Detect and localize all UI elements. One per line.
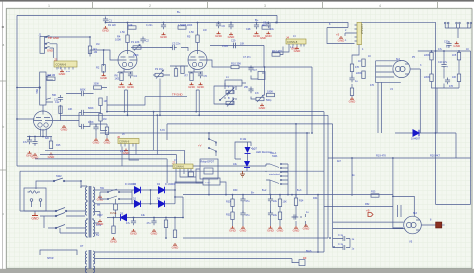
svg-text:+5: +5	[336, 33, 340, 37]
ground under J2	[59, 70, 67, 76]
pentode V4	[393, 60, 420, 77]
plate resistor R5 100K	[196, 35, 199, 43]
cap C13 (h)	[79, 91, 86, 96]
cathode cap C4	[128, 72, 133, 79]
cap C15 (h)	[79, 124, 86, 129]
inline capacitor C29	[234, 43, 236, 49]
svg-text:CONN-6: CONN-6	[119, 139, 130, 143]
ruler ticks left	[0, 81, 6, 170]
decoupling cap C6 on rail	[216, 22, 221, 29]
svg-text:R1 12K: R1 12K	[108, 24, 116, 27]
resistor R35 on feed	[371, 194, 379, 197]
cap C11	[445, 78, 450, 85]
small box U2	[258, 72, 265, 80]
resistor R16 220K	[430, 74, 433, 82]
svg-text:+V: +V	[198, 144, 202, 148]
port +B	[366, 209, 373, 217]
svg-text:10K: 10K	[452, 76, 457, 79]
cathode resistor R7	[190, 73, 193, 81]
svg-text:~ + -: ~ + -	[205, 182, 210, 185]
cathode resistor R6	[120, 73, 123, 81]
svg-text:22u: 22u	[270, 28, 275, 31]
svg-text:1M: 1M	[103, 118, 106, 121]
svg-text:C3 22n: C3 22n	[172, 42, 181, 46]
svg-text:2: 2	[149, 4, 151, 8]
svg-text:R3 1M: R3 1M	[48, 73, 56, 77]
svg-text:47u: 47u	[147, 222, 152, 225]
connector J7 (yellow)	[172, 160, 193, 171]
window bottom strip	[0, 269, 474, 273]
ground at T1 HT CT	[97, 220, 105, 226]
wire bridge output up to relay rectifier	[175, 182, 203, 218]
bridge diode D3	[132, 190, 175, 207]
svg-text:C28: C28	[246, 28, 251, 31]
wire joining jumpers	[445, 28, 471, 38]
svg-text:6.3V: 6.3V	[160, 129, 165, 132]
svg-text:C30: C30	[444, 41, 449, 44]
svg-text:1.5K: 1.5K	[189, 31, 194, 34]
V3 plate coupling wire	[210, 45, 264, 67]
svg-text:R19 47K: R19 47K	[376, 154, 386, 158]
svg-text:P1 22K: P1 22K	[131, 40, 140, 44]
svg-text:C7: C7	[254, 68, 258, 72]
svg-text:R10 39K: R10 39K	[231, 62, 241, 66]
wire J6 drop	[122, 147, 139, 167]
svg-text:R35: R35	[371, 191, 376, 194]
resistor R17	[457, 52, 460, 60]
svg-text:R7: R7	[185, 74, 189, 78]
wire J7 links	[176, 171, 203, 183]
svg-text:V5: V5	[409, 240, 413, 244]
rail dropper resistors row	[128, 26, 136, 29]
bridge diode D1	[132, 183, 175, 193]
wire bottom long run	[183, 237, 328, 239]
wire V3 cathode network	[188, 68, 203, 73]
resistor R37	[350, 88, 353, 96]
wire into V5 box	[324, 196, 414, 228]
svg-text:CONN-6: CONN-6	[174, 165, 185, 169]
wire mid right bus	[328, 158, 471, 196]
svg-text:220K: 220K	[424, 76, 430, 79]
plate resistor R4 100K	[126, 35, 129, 43]
grid resistor R14	[362, 71, 365, 79]
input jack J1	[40, 36, 52, 54]
ground dark under LED	[240, 171, 245, 177]
ground of inlet	[31, 213, 39, 221]
trimmer P1	[133, 46, 141, 49]
connector J5 (yellow, vertical)	[357, 22, 364, 44]
ground under jumpers	[453, 42, 461, 48]
wire main B+ bus	[183, 194, 393, 196]
T1 secondary taps	[95, 190, 132, 233]
svg-text:500p: 500p	[266, 99, 272, 102]
svg-text:GND: GND	[31, 217, 39, 221]
filter cap C10 47u	[438, 61, 449, 69]
ground under trimmer	[259, 104, 267, 110]
capacitor C27	[349, 76, 354, 83]
wire top-right feed	[362, 22, 471, 204]
svg-text:350V: 350V	[97, 214, 103, 217]
svg-text:47u: 47u	[126, 222, 131, 225]
svg-text:220K: 220K	[356, 72, 362, 75]
capacitor C30	[446, 41, 451, 48]
svg-text:4k7: 4k7	[337, 160, 342, 163]
svg-text:1.5K: 1.5K	[120, 31, 125, 34]
svg-text:470: 470	[449, 85, 454, 88]
wire long run A	[107, 96, 324, 252]
svg-text:682K: 682K	[88, 107, 94, 110]
output transformer T2	[85, 250, 94, 273]
svg-text:180K: 180K	[267, 90, 273, 94]
svg-text:C4: C4	[134, 74, 138, 78]
svg-text:47u: 47u	[23, 141, 28, 144]
ground under C31	[93, 138, 101, 144]
svg-text:SPKR: SPKR	[47, 257, 54, 260]
wire coupling row V2-V3	[131, 48, 188, 52]
svg-text:22u: 22u	[273, 214, 278, 217]
wire bus drop to bottom run	[317, 195, 319, 252]
svg-text:1M: 1M	[104, 100, 107, 103]
wire screen feed drop	[306, 133, 308, 195]
svg-text:4: 4	[379, 4, 381, 8]
sheet border bottom	[6, 267, 472, 269]
diode D6	[395, 130, 456, 158]
svg-text:47u: 47u	[246, 200, 251, 203]
svg-text:C7 47n: C7 47n	[243, 56, 251, 59]
misc value labels	[45, 23, 469, 260]
svg-text:B+: B+	[177, 10, 181, 14]
svg-text:10K: 10K	[283, 201, 288, 204]
svg-text:C 22n: C 22n	[146, 24, 153, 27]
svg-text:1 2 3: 1 2 3	[120, 150, 126, 153]
ground under J6 pin	[123, 149, 131, 155]
svg-text:C2: C2	[146, 39, 150, 43]
bright switch SW7	[214, 86, 233, 104]
svg-text:R31: R31	[226, 214, 231, 217]
window top edge	[0, 0, 474, 2]
wire V1 grid feed	[17, 118, 35, 120]
tone stack body U1	[225, 80, 242, 86]
svg-text:1: 1	[48, 4, 50, 8]
svg-text:22u: 22u	[273, 200, 278, 203]
svg-text:B+2: B+2	[262, 189, 267, 192]
wire jack2 feed	[17, 87, 40, 89]
resistor R21	[59, 106, 62, 114]
svg-text:B+: B+	[255, 18, 259, 22]
wire V3 grid from volume pot	[170, 66, 188, 69]
wire V4 down feeds	[378, 69, 420, 133]
speaker jack SPK	[430, 219, 445, 228]
svg-text:R5 100K: R5 100K	[183, 24, 193, 27]
svg-text:47K: 47K	[355, 66, 360, 69]
capacitor C2	[140, 37, 145, 44]
svg-text:C5: C5	[204, 74, 208, 78]
standby switch SW3	[40, 208, 85, 212]
volume pot P2	[153, 67, 170, 79]
coupling cap C12	[58, 95, 63, 102]
wire V3 plate out to tone stack	[207, 60, 312, 133]
svg-text:R12 470: R12 470	[272, 49, 282, 53]
wire left loop 2	[20, 171, 324, 211]
bottom run caps C25 C26	[340, 236, 355, 251]
cap C16	[27, 138, 32, 145]
wire right column extra	[436, 88, 438, 133]
svg-text:1K5: 1K5	[115, 77, 120, 81]
svg-text:1N4007: 1N4007	[411, 137, 421, 141]
connector J2 (yellow)	[54, 57, 77, 69]
bias feed component D9	[299, 256, 307, 266]
net label TP GND	[167, 93, 187, 97]
svg-text:R34: R34	[299, 200, 304, 203]
ground under C17	[32, 153, 40, 159]
heater jumper JP3	[467, 22, 472, 28]
wire channel select A	[45, 150, 185, 164]
svg-text:b: b	[2, 125, 4, 129]
ground under R38	[104, 138, 112, 144]
svg-text:1K5: 1K5	[452, 54, 457, 57]
wire long run C	[167, 124, 333, 198]
svg-text:R5: R5	[187, 35, 191, 39]
svg-text:C9: C9	[263, 21, 267, 25]
wire V2 cathode network	[118, 68, 133, 73]
svg-text:TIP GND: TIP GND	[48, 36, 59, 40]
filter column C20/C21	[240, 195, 250, 233]
ground V3 cathode R	[188, 83, 196, 89]
relay supply rectifier U3	[203, 178, 226, 195]
svg-text:J2: J2	[54, 57, 57, 61]
svg-text:5V: 5V	[96, 233, 99, 237]
svg-text:OT: OT	[80, 245, 84, 248]
svg-text:B+: B+	[251, 191, 255, 195]
wire J5 return drop	[352, 45, 359, 97]
svg-text:P2 1M: P2 1M	[155, 67, 163, 71]
wire V3 plate to rail	[197, 23, 199, 51]
svg-text:R34: R34	[313, 197, 318, 200]
svg-text:TP GND: TP GND	[172, 93, 183, 97]
wire C31/R38 drops	[90, 124, 107, 138]
capacitor C28 on rail	[254, 23, 259, 30]
wire B+ rail	[106, 23, 349, 28]
svg-text:3: 3	[264, 4, 266, 8]
svg-text:1K: 1K	[368, 55, 371, 58]
wire long run B	[60, 115, 340, 247]
ground under C1	[102, 26, 110, 32]
filter column R30/R31	[226, 195, 237, 233]
ground under C33	[228, 33, 236, 39]
svg-text:J4: J4	[286, 35, 289, 39]
bridge diode D4	[157, 198, 165, 208]
svg-text:c: c	[2, 212, 4, 216]
wires F cluster	[66, 88, 107, 131]
bias resistor R28	[164, 218, 167, 239]
bias diode D5	[107, 213, 183, 221]
svg-text:CONN-8: CONN-8	[360, 24, 364, 35]
svg-text:R52: R52	[365, 203, 370, 206]
svg-text:J6: J6	[117, 135, 120, 139]
ground V1 divider	[61, 125, 69, 131]
wire mid heater run	[100, 133, 310, 139]
ground under C9	[265, 32, 273, 38]
ground at T1 shield	[97, 195, 105, 201]
svg-text:25K: 25K	[244, 86, 249, 89]
resistor R10 39K	[231, 65, 239, 68]
bridge diode D2	[157, 183, 165, 193]
heater jumper JP2	[456, 22, 461, 28]
resistor R36	[350, 64, 353, 72]
svg-text:330K: 330K	[94, 83, 100, 86]
screen resistor R13	[362, 59, 365, 67]
input jack J3 (lower)	[39, 72, 53, 105]
LED D7	[245, 147, 255, 154]
svg-text:47n: 47n	[255, 92, 260, 95]
svg-text:0.022: 0.022	[222, 45, 229, 48]
switch SW4	[40, 213, 85, 234]
svg-text:C 1u: C 1u	[338, 243, 344, 246]
svg-text:6L6: 6L6	[396, 58, 401, 61]
svg-text:HT: HT	[97, 204, 101, 207]
cathode resistor R25	[49, 141, 52, 149]
svg-text:D 1N4007: D 1N4007	[165, 183, 176, 186]
svg-text:SW2: SW2	[56, 174, 62, 178]
svg-text:470K: 470K	[88, 121, 94, 124]
svg-text:R 10k: R 10k	[240, 138, 247, 141]
AC inlet J8	[24, 188, 46, 213]
treble pot P3	[226, 88, 234, 96]
svg-text:R30: R30	[233, 189, 238, 192]
bias resistor R29	[172, 218, 180, 250]
wire mixer link	[107, 97, 167, 105]
decoupling cap C32 on rail	[161, 23, 166, 30]
cap C14 (h)	[79, 110, 86, 115]
bias resistor R27	[110, 218, 118, 244]
svg-text:R20 4K7: R20 4K7	[430, 154, 441, 158]
bias cap C18	[126, 218, 138, 236]
bias cap C19	[147, 218, 159, 236]
cathode cap C5	[198, 72, 203, 79]
svg-text:C29: C29	[231, 40, 236, 43]
resistor R12 470	[272, 53, 280, 56]
svg-text:682K: 682K	[80, 89, 86, 92]
ground under R37	[349, 97, 357, 103]
wire V3 cathode drop	[196, 90, 199, 115]
filter column C22/C23	[267, 195, 277, 233]
svg-text:47u: 47u	[438, 48, 443, 51]
wire J4 links	[272, 47, 289, 55]
wire relay to bus	[196, 169, 209, 195]
bass pot P4	[226, 99, 234, 107]
resistor R3 on jack J3	[47, 77, 55, 80]
wire V2 cathode drop	[125, 90, 128, 115]
svg-text:1K: 1K	[358, 60, 361, 63]
connector J6 (yellow)	[117, 135, 139, 147]
svg-text:6.3V: 6.3V	[96, 223, 102, 227]
svg-text:1K: 1K	[466, 48, 469, 51]
resistor R24	[99, 114, 102, 122]
svg-text:+B: +B	[366, 209, 370, 213]
trimmer P5	[256, 95, 264, 102]
resistor R15 220K	[430, 52, 433, 60]
bias switch SW6	[100, 192, 132, 200]
ground under C6	[215, 32, 223, 38]
wire V1 plate/grid/cathode	[27, 105, 66, 141]
relay RL1 coil	[200, 159, 218, 179]
heater jumper JP1	[444, 22, 449, 28]
T2 left terminal box	[40, 250, 77, 255]
svg-text:FUSE: FUSE	[110, 212, 117, 215]
wire jack J1 to grid of V2	[46, 37, 118, 74]
triode V1	[34, 111, 53, 130]
svg-text:47u: 47u	[246, 214, 251, 217]
mains switch SW2	[36, 174, 81, 189]
svg-text:10K: 10K	[240, 43, 245, 46]
triode V3	[188, 51, 207, 70]
ground under C16	[26, 151, 34, 157]
svg-text:C10 47u: C10 47u	[438, 61, 448, 64]
wire tone pots	[225, 83, 256, 100]
svg-text:R30: R30	[226, 201, 231, 204]
svg-text:C6: C6	[222, 24, 226, 28]
svg-text:56K: 56K	[52, 94, 57, 97]
svg-text:100K: 100K	[115, 38, 121, 42]
resistor R22 330K (h)	[94, 86, 102, 89]
svg-text:= =: = =	[66, 71, 70, 74]
ruler ticks top	[93, 2, 438, 8]
wire jack contacts to J2	[52, 44, 57, 61]
LED wiring box	[235, 142, 251, 171]
ground under C28	[253, 32, 261, 38]
svg-text:D9: D9	[303, 256, 307, 260]
coupling capacitor C3	[170, 45, 177, 50]
wire left loop vertical + top return	[17, 15, 277, 166]
ground under R2	[100, 74, 108, 80]
decoupling cap C33 on rail	[228, 23, 233, 30]
wire V2 plate to rail	[127, 23, 129, 51]
capacitor C9 22u	[263, 21, 271, 29]
capacitor C1 on rail	[103, 17, 108, 24]
svg-text:56K: 56K	[35, 89, 39, 94]
svg-text:1M: 1M	[96, 43, 99, 46]
power transformer T1	[81, 186, 95, 238]
cap C17	[32, 139, 37, 146]
svg-text:250K: 250K	[133, 54, 139, 57]
wire speaker top return	[436, 203, 471, 205]
ground V3 cathode C	[197, 83, 205, 89]
connector J4 (yellow)	[286, 35, 306, 46]
junction rail/top-return	[16, 22, 278, 120]
svg-text:interlocked: interlocked	[269, 173, 280, 176]
selector switch SW1	[266, 163, 288, 194]
svg-text:C12: C12	[55, 101, 60, 104]
wire channel select C	[35, 159, 167, 183]
T2 secondary runs	[95, 252, 324, 263]
svg-text:BIAS: BIAS	[306, 250, 312, 253]
resistor R23 1M	[99, 98, 102, 106]
ground under R25	[48, 153, 56, 159]
relay RL1 contacts	[208, 138, 216, 156]
filter column R34 + C24	[292, 195, 311, 233]
resistor R8	[174, 69, 177, 77]
resistor R18	[457, 74, 460, 82]
fuse F1	[110, 199, 118, 218]
svg-text:SW-A: SW-A	[270, 152, 277, 155]
ground V2 cathode C	[127, 83, 135, 89]
svg-text:C 1u: C 1u	[338, 234, 344, 237]
wire box to J5	[327, 25, 357, 44]
svg-text:C1: C1	[109, 19, 113, 23]
resistor R2 1M	[102, 65, 105, 73]
triode V2	[118, 51, 137, 70]
svg-text:R2: R2	[96, 66, 100, 70]
